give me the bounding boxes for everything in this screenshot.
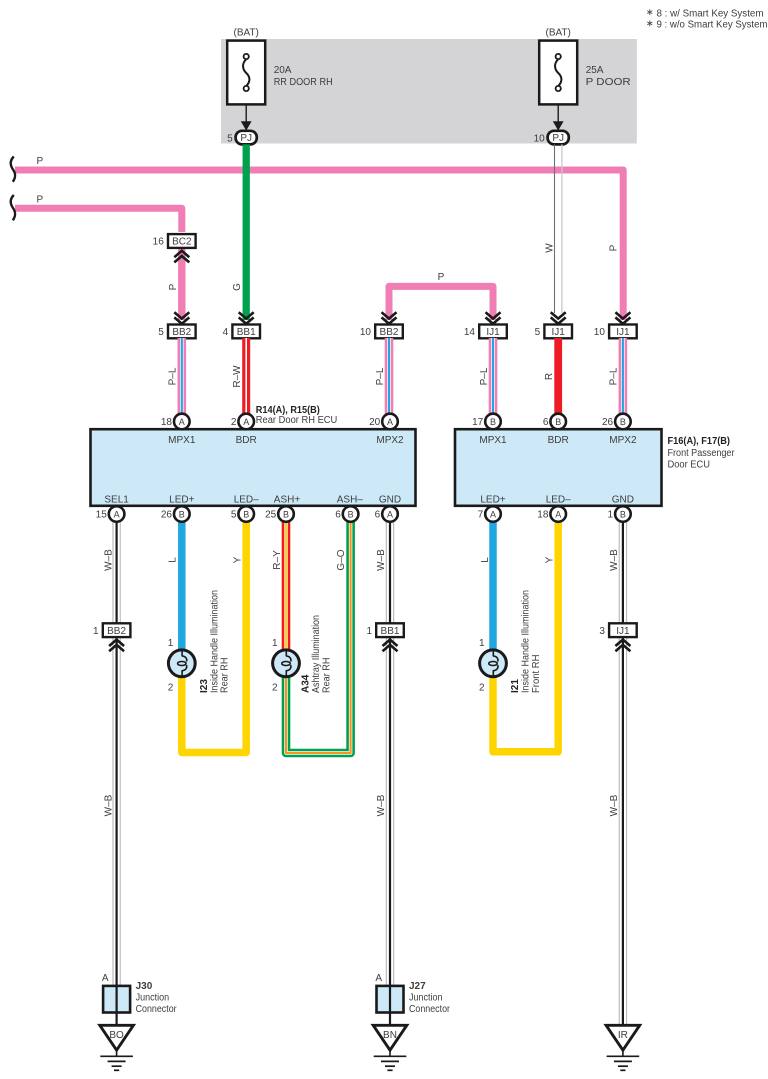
svg-text:3: 3 [599, 626, 605, 637]
svg-text:IJ1: IJ1 [616, 327, 630, 338]
svg-text:9 : w/o Smart Key System: 9 : w/o Smart Key System [657, 20, 768, 31]
svg-text:G: G [232, 283, 243, 291]
svg-text:W–B: W–B [376, 549, 387, 571]
svg-text:6: 6 [375, 510, 381, 521]
svg-text:IR: IR [618, 1030, 628, 1041]
svg-text:2: 2 [168, 683, 174, 694]
svg-text:Door ECU: Door ECU [668, 459, 711, 470]
svg-text:W–B: W–B [103, 794, 114, 816]
svg-text:15: 15 [96, 510, 108, 521]
svg-text:Inside Handle Illumination: Inside Handle Illumination [520, 590, 531, 693]
svg-text:A: A [179, 417, 185, 427]
svg-text:P–L: P–L [168, 367, 179, 385]
svg-text:B: B [555, 417, 561, 427]
svg-text:LED–: LED– [546, 494, 571, 505]
svg-text:SEL1: SEL1 [104, 494, 129, 505]
svg-text:A: A [387, 417, 393, 427]
svg-text:IJ1: IJ1 [616, 626, 630, 637]
svg-text:L: L [480, 557, 491, 563]
svg-text:17: 17 [472, 417, 484, 428]
svg-text:1: 1 [93, 626, 99, 637]
svg-text:P–L: P–L [375, 367, 386, 385]
svg-text:B: B [179, 509, 185, 519]
svg-text:R–Y: R–Y [272, 550, 283, 570]
svg-text:P: P [37, 194, 44, 205]
svg-text:BB1: BB1 [237, 327, 256, 338]
svg-text:P–L: P–L [479, 367, 490, 385]
svg-text:B: B [243, 509, 249, 519]
svg-text:18: 18 [537, 510, 549, 521]
svg-text:4: 4 [223, 327, 229, 338]
svg-text:BB1: BB1 [381, 626, 400, 637]
svg-text:LED+: LED+ [480, 494, 505, 505]
svg-text:W–B: W–B [376, 794, 387, 816]
svg-text:Y: Y [545, 556, 556, 563]
svg-text:1: 1 [168, 638, 174, 649]
svg-text:P DOOR: P DOOR [586, 77, 631, 88]
svg-text:6: 6 [335, 510, 341, 521]
svg-text:Ashtray Illumination: Ashtray Illumination [311, 615, 322, 693]
svg-text:5: 5 [535, 327, 541, 338]
svg-text:BDR: BDR [236, 435, 257, 446]
svg-text:P–L: P–L [609, 367, 620, 385]
svg-text:RR DOOR RH: RR DOOR RH [274, 77, 333, 88]
svg-text:(BAT): (BAT) [546, 28, 571, 39]
svg-text:B: B [620, 509, 626, 519]
svg-text:J30: J30 [136, 981, 153, 992]
svg-text:BO: BO [109, 1030, 124, 1041]
svg-text:2: 2 [479, 683, 485, 694]
svg-text:P: P [37, 156, 44, 167]
svg-text:1: 1 [608, 510, 614, 521]
svg-text:W–B: W–B [609, 549, 620, 571]
svg-text:Y: Y [232, 556, 243, 563]
svg-text:1: 1 [272, 638, 278, 649]
svg-text:IJ1: IJ1 [486, 327, 500, 338]
svg-text:BB2: BB2 [107, 626, 126, 637]
svg-text:P: P [609, 244, 620, 251]
svg-text:Front Passenger: Front Passenger [668, 448, 736, 459]
svg-text:R: R [544, 373, 555, 380]
svg-text:GND: GND [612, 494, 634, 505]
svg-text:B: B [348, 509, 354, 519]
svg-text:20A: 20A [274, 65, 292, 76]
svg-text:10: 10 [360, 327, 372, 338]
svg-text:26: 26 [602, 417, 614, 428]
svg-text:PJ: PJ [552, 133, 564, 144]
svg-text:25A: 25A [586, 65, 604, 76]
svg-text:B: B [283, 509, 289, 519]
svg-text:BDR: BDR [548, 435, 569, 446]
svg-text:BC2: BC2 [172, 237, 192, 248]
svg-text:10: 10 [594, 327, 606, 338]
svg-text:F16(A), F17(B): F16(A), F17(B) [668, 436, 731, 447]
svg-text:10: 10 [534, 133, 546, 144]
svg-text:5: 5 [158, 327, 164, 338]
svg-text:1: 1 [479, 638, 485, 649]
svg-text:I23: I23 [199, 679, 210, 693]
svg-text:Connector: Connector [136, 1004, 178, 1015]
svg-text:Rear RH: Rear RH [220, 658, 231, 694]
svg-text:BB2: BB2 [172, 327, 191, 338]
svg-text:Junction: Junction [409, 993, 443, 1004]
svg-text:MPX2: MPX2 [609, 435, 637, 446]
svg-text:7: 7 [478, 510, 484, 521]
svg-text:5: 5 [227, 133, 233, 144]
svg-text:A: A [243, 417, 249, 427]
svg-text:A: A [114, 509, 120, 519]
svg-text:8 : w/ Smart Key System: 8 : w/ Smart Key System [657, 8, 764, 19]
svg-text:20: 20 [369, 417, 381, 428]
svg-text:IJ1: IJ1 [552, 327, 566, 338]
svg-text:A: A [375, 973, 382, 984]
svg-text:26: 26 [161, 510, 173, 521]
svg-text:PJ: PJ [240, 133, 252, 144]
svg-text:ASH+: ASH+ [274, 494, 301, 505]
svg-text:I21: I21 [510, 679, 521, 693]
svg-text:MPX1: MPX1 [168, 435, 196, 446]
svg-text:6: 6 [543, 417, 549, 428]
svg-text:B: B [490, 417, 496, 427]
svg-text:A: A [490, 509, 496, 519]
svg-text:LED–: LED– [234, 494, 259, 505]
svg-text:R–W: R–W [232, 365, 243, 388]
svg-text:(BAT): (BAT) [234, 28, 259, 39]
svg-text:BB2: BB2 [380, 327, 399, 338]
svg-text:2: 2 [231, 417, 237, 428]
svg-text:A: A [555, 509, 561, 519]
svg-text:2: 2 [272, 683, 278, 694]
svg-text:Front RH: Front RH [531, 655, 542, 694]
svg-text:Junction: Junction [136, 993, 170, 1004]
svg-text:LED+: LED+ [169, 494, 194, 505]
svg-text:16: 16 [153, 237, 165, 248]
svg-text:W–B: W–B [609, 794, 620, 816]
svg-text:A: A [102, 973, 109, 984]
svg-text:J27: J27 [409, 981, 426, 992]
svg-text:P: P [168, 283, 179, 290]
svg-text:L: L [167, 557, 178, 563]
svg-text:5: 5 [231, 510, 237, 521]
svg-text:18: 18 [161, 417, 173, 428]
svg-text:MPX2: MPX2 [376, 435, 404, 446]
svg-text:GND: GND [379, 494, 401, 505]
svg-text:Rear RH: Rear RH [321, 658, 332, 694]
svg-text:A34: A34 [301, 674, 312, 693]
svg-text:BN: BN [383, 1030, 397, 1041]
svg-text:B: B [620, 417, 626, 427]
svg-text:Rear Door RH ECU: Rear Door RH ECU [256, 415, 337, 426]
svg-text:Connector: Connector [409, 1004, 451, 1015]
svg-text:ASH–: ASH– [337, 494, 364, 505]
svg-text:G–O: G–O [336, 549, 347, 570]
svg-text:W: W [544, 243, 555, 253]
svg-text:14: 14 [464, 327, 476, 338]
svg-text:MPX1: MPX1 [479, 435, 507, 446]
svg-text:1: 1 [366, 626, 372, 637]
svg-text:W–B: W–B [103, 549, 114, 571]
svg-text:P: P [438, 272, 445, 283]
svg-text:25: 25 [265, 510, 277, 521]
svg-text:A: A [387, 509, 393, 519]
